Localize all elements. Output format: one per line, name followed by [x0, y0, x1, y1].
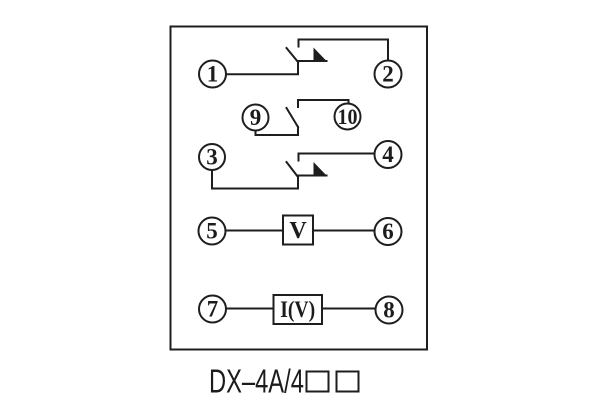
contact K3 moving blade (terminals 3-4)	[287, 162, 299, 177]
terminal 1	[199, 61, 226, 88]
svg-text:9: 9	[250, 105, 262, 130]
svg-text:2: 2	[382, 62, 394, 87]
relay case outline	[171, 27, 428, 350]
contact K1 moving blade (terminals 1-2)	[287, 48, 299, 62]
svg-text:10: 10	[338, 104, 358, 129]
wire coil V to terminal 6	[313, 230, 375, 232]
terminal 10	[335, 104, 361, 130]
svg-text:7: 7	[207, 297, 219, 322]
wire terminal 5 to coil V	[226, 230, 284, 232]
wire coil I(V) to terminal 8	[322, 308, 376, 310]
svg-text:4: 4	[382, 142, 394, 167]
caption placeholder square 2	[337, 372, 359, 392]
svg-text:I(V): I(V)	[280, 297, 315, 322]
svg-text:3: 3	[206, 145, 218, 170]
contact K3 fixed contact stub	[298, 154, 300, 161]
wire terminal 9 to contact K2 blade	[256, 127, 299, 135]
terminal 9	[243, 105, 269, 131]
wire contact K2 to terminal 10	[298, 100, 349, 104]
svg-text:1: 1	[207, 62, 219, 87]
terminal 8	[376, 297, 403, 324]
terminal 6	[375, 218, 402, 245]
svg-text:5: 5	[206, 219, 218, 244]
wire terminal 1 to contact K1 blade	[227, 62, 299, 74]
caption placeholder square 1	[307, 372, 329, 392]
wire terminal 3 to contact K3 blade	[212, 170, 298, 189]
contact K2 fixed contact stub	[297, 100, 299, 107]
terminal 4	[375, 141, 402, 168]
terminal 3	[199, 144, 225, 170]
wire terminal 7 to coil I(V)	[226, 308, 274, 310]
wire contact K1 to terminal 2	[299, 40, 389, 61]
contact K1 fixed contact stub	[298, 40, 300, 47]
contact K2 moving blade (terminals 9-10)	[287, 108, 299, 127]
contact K1 movement arrow	[298, 48, 327, 62]
terminal 5	[199, 218, 226, 245]
coil V (voltage element)	[283, 216, 313, 245]
terminal 7	[199, 296, 226, 323]
wire contact K3 to terminal 4	[299, 153, 375, 155]
svg-text:V: V	[289, 218, 307, 244]
svg-text:DX–4A/4: DX–4A/4	[209, 364, 304, 400]
svg-text:8: 8	[383, 298, 395, 323]
svg-text:6: 6	[382, 219, 394, 244]
contact K3 movement arrow	[298, 162, 327, 176]
terminal 2	[375, 61, 402, 88]
coil I(V) (current/voltage element)	[274, 295, 323, 324]
